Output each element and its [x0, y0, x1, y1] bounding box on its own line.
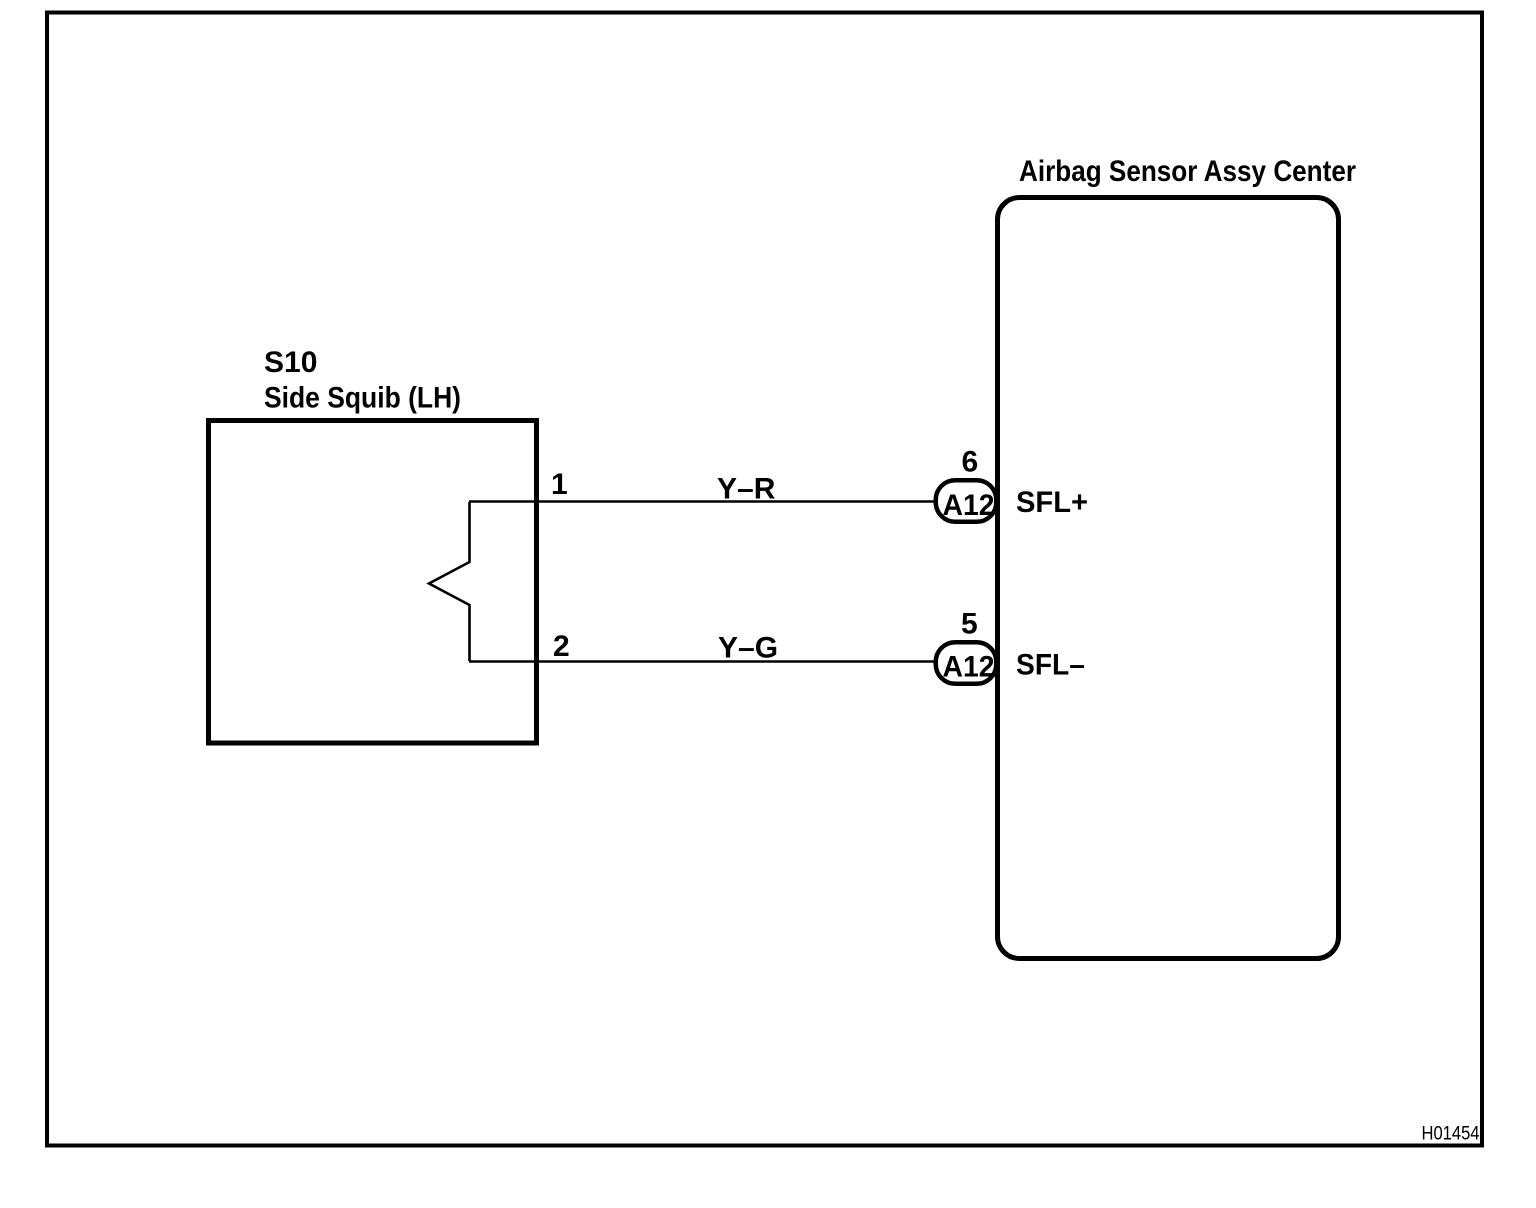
pin 2 label: [553, 630, 570, 663]
svg-text:Airbag Sensor Assy Center: Airbag Sensor Assy Center: [1019, 155, 1356, 188]
wire color label Y-R: [717, 473, 776, 506]
figure number H01454: [1422, 1124, 1480, 1145]
svg-text:6: 6: [962, 446, 979, 479]
pin 1 label: [551, 468, 568, 501]
airbag sensor assy center box: [998, 198, 1339, 959]
Airbag Sensor Assy Center name label: [1019, 155, 1356, 188]
svg-text:H01454: H01454: [1422, 1124, 1480, 1145]
wire color label Y-G: [718, 632, 778, 665]
svg-text:Side Squib (LH): Side Squib (LH): [264, 382, 461, 415]
pin 5 label: [961, 608, 978, 641]
connector S10 name label Side Squib (LH): [264, 382, 461, 415]
connector S10 reference label: [264, 346, 317, 379]
connector A12 oval at pin 5: [936, 642, 997, 684]
svg-text:Y–G: Y–G: [718, 632, 778, 665]
pin name SFL-: [1016, 649, 1085, 682]
wire 2 Y-G from S10 pin 2 to A12 pin 5: [469, 660, 936, 663]
svg-text:Y–R: Y–R: [717, 473, 776, 506]
svg-text:SFL–: SFL–: [1016, 649, 1085, 682]
svg-text:2: 2: [553, 630, 570, 663]
svg-text:S10: S10: [264, 346, 317, 379]
svg-text:1: 1: [551, 468, 568, 501]
connector A12 oval at pin 6: [936, 480, 997, 522]
svg-text:5: 5: [961, 608, 978, 641]
svg-text:A12: A12: [943, 651, 995, 684]
pin name SFL+: [1016, 486, 1088, 519]
wire 1 Y-R from S10 pin 1 to A12 pin 6: [469, 500, 936, 503]
squib connector half symbol (zigzag): [429, 502, 470, 661]
connector S10 Side Squib (LH) box: [209, 421, 537, 744]
svg-text:A12: A12: [943, 489, 995, 522]
pin 6 label: [962, 446, 979, 479]
svg-text:SFL+: SFL+: [1016, 486, 1088, 519]
